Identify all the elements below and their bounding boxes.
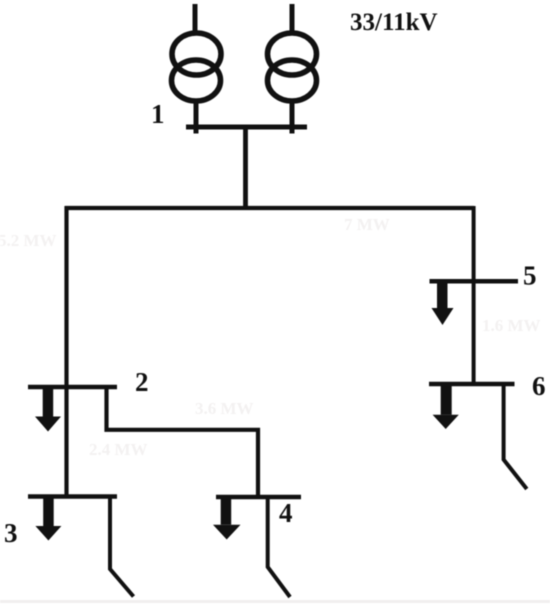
svg-text:3.6 MW: 3.6 MW xyxy=(195,399,254,418)
svg-text:1: 1 xyxy=(151,99,165,129)
svg-text:2: 2 xyxy=(135,367,149,397)
svg-text:6: 6 xyxy=(532,371,546,401)
svg-text:3: 3 xyxy=(4,518,18,548)
svg-text:4: 4 xyxy=(279,498,293,528)
svg-text:33/11kV: 33/11kV xyxy=(350,9,438,36)
svg-text:5: 5 xyxy=(523,261,537,291)
svg-text:7 MW: 7 MW xyxy=(344,215,390,234)
svg-text:2.4 MW: 2.4 MW xyxy=(89,440,148,459)
svg-text:1.6 MW: 1.6 MW xyxy=(482,316,541,335)
svg-text:5.2 MW: 5.2 MW xyxy=(0,231,57,250)
